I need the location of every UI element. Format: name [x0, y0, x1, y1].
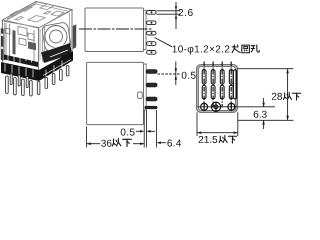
dim 0.5 top (pin thickness): [158, 73, 181, 75]
rounded body outline double line: [197, 65, 238, 113]
right edge dark bar: [73, 24, 76, 49]
body rect: [85, 8, 144, 52]
base slab: [1, 62, 39, 81]
flange: [144, 64, 147, 110]
dim 6.3: [263, 98, 265, 129]
dim 28以下: [237, 69, 293, 121]
line through mounting circles: [198, 106, 276, 108]
dim 0.5 bottom: [121, 129, 135, 136]
dim 21.5以下: [197, 112, 238, 136]
keyway oblong right: [233, 70, 236, 99]
coil housing right face: [41, 22, 71, 52]
dim 36以下: [133, 143, 144, 145]
top face markings: [7, 3, 64, 23]
dim 6.4: [157, 141, 161, 144]
bottom extension lines: [87, 110, 157, 148]
pins: [6, 66, 69, 97]
mounting circles: [201, 102, 235, 112]
oblong holes row1: [202, 70, 236, 99]
dark blob mid: [28, 42, 36, 51]
coil: [45, 26, 67, 48]
flange: [144, 10, 147, 49]
label 10-phi1.2x2.2: [155, 38, 173, 47]
D notch: [138, 92, 143, 99]
5 pins: [147, 11, 156, 55]
centerline: [79, 28, 153, 30]
left edge tab: [1, 28, 4, 61]
4 centerlines: [204, 62, 231, 108]
dark bar left: [13, 30, 16, 55]
cover outline: [3, 2, 73, 71]
3 pins + bottom bar: [145, 70, 157, 109]
dim 2.6: [157, 2, 181, 29]
body rect: [87, 62, 144, 124]
oblong holes row2: [202, 85, 206, 99]
contact band dark: [4, 55, 38, 68]
front face internals: [5, 23, 34, 64]
